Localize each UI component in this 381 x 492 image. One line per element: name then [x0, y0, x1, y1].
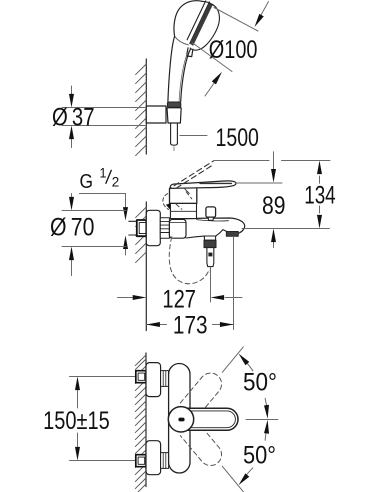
- lever capsule inner line: [188, 411, 235, 428]
- label 1500 leader line: [180, 135, 207, 137]
- shower head pivot tab: [187, 48, 193, 57]
- phantom handle sweep dashes: [184, 188, 190, 194]
- lever blade: [170, 181, 236, 188]
- upper union nut/nipple: [161, 371, 169, 387]
- wall hatching (bottom section): [135, 355, 146, 492]
- phantom lever up position (dashed): [180, 369, 226, 418]
- shower handle left edge: [168, 37, 175, 102]
- svg-text:134: 134: [304, 182, 336, 210]
- lever front circle: [168, 407, 193, 432]
- dimension Ø70 extension lines: [62, 210, 126, 212]
- lever rotation arrow: [163, 194, 169, 210]
- lower union square nut: [136, 455, 146, 467]
- svg-text:Ø 37: Ø 37: [52, 103, 95, 131]
- svg-text:1500: 1500: [216, 124, 259, 152]
- wall line (bottom section): [145, 353, 147, 487]
- dimension 150±15: [77, 391, 79, 409]
- dimension Ø37 arrows: [71, 86, 73, 95]
- hose connector tube: [207, 248, 214, 267]
- dimension 173: [146, 324, 166, 326]
- dimension 150±15 extension lines: [70, 376, 136, 378]
- shower hose (top section): [170, 123, 172, 144]
- svg-text:2: 2: [112, 174, 120, 189]
- shower head face plate double line: [187, 1, 206, 40]
- dimension 134: [319, 176, 321, 183]
- connector centerline tick: [209, 268, 211, 273]
- body underside left of connector: [186, 236, 204, 238]
- hose connector neck: [204, 236, 215, 240]
- spout outlet aerator: [226, 231, 238, 236]
- shower head outer rim: [190, 1, 219, 50]
- inlet fitting between flange and body: [160, 218, 169, 238]
- extension line lever top (89): [236, 182, 283, 184]
- extension line hose connector (127): [210, 267, 212, 302]
- shower head bottom closing edge: [175, 36, 189, 45]
- G 1/2 label: [80, 166, 120, 193]
- extension line raised lever top: [214, 160, 269, 162]
- upper union flange: [146, 363, 161, 397]
- lever capsule (front view): [184, 408, 238, 430]
- wall hatching (top section): [136, 64, 147, 156]
- wall bracket cone: [167, 108, 181, 123]
- mixer spout: [172, 218, 245, 234]
- dimension Ø100 lower arrow: [205, 83, 215, 97]
- svg-text:Ø100: Ø100: [209, 36, 258, 64]
- svg-text:89: 89: [262, 192, 286, 220]
- wall line (top section): [145, 59, 147, 154]
- wall line (mid section): [145, 202, 147, 331]
- svg-text:1: 1: [100, 166, 107, 181]
- cartridge neck: [170, 203, 196, 218]
- dimension Ø100 extension line A: [214, 8, 258, 32]
- phantom lever down position (dashed): [180, 421, 226, 470]
- arc arrow upper 50: [242, 358, 253, 371]
- shower handle right edge: [181, 49, 191, 102]
- svg-text:127: 127: [162, 285, 196, 313]
- angle line lower 50: [222, 466, 243, 491]
- wall flange (mid section): [146, 210, 160, 245]
- wall hatching (mid section): [136, 207, 147, 263]
- extension line outlet level: [242, 228, 330, 230]
- mixer body capsule (front view): [169, 364, 190, 474]
- diverter knob: [206, 207, 216, 217]
- phantom raised lever (dashed pair): [174, 161, 214, 186]
- G1/2 port square: [137, 220, 147, 236]
- supply pipe stub in wall: [129, 220, 137, 222]
- angle line upper 50: [222, 347, 243, 372]
- upper union square nut: [136, 371, 146, 383]
- handle end cap (knurled ring): [167, 102, 180, 107]
- spout inner top line: [197, 220, 229, 221]
- svg-text:50°: 50°: [243, 441, 276, 469]
- dimension 89: [273, 152, 275, 170]
- logo dot on circle: [178, 418, 184, 422]
- centerline right of lever: [246, 419, 278, 421]
- lower union nut/nipple: [161, 453, 169, 469]
- shower head outline (back): [174, 1, 202, 37]
- lower union flange: [146, 441, 161, 475]
- dimension Ø70 arrows: [71, 194, 73, 197]
- hose centerline tick: [173, 147, 175, 151]
- shower head spray band (stippled): [190, 2, 213, 46]
- G 1/2 dimension arrows: [125, 194, 127, 208]
- svg-text:173: 173: [173, 311, 208, 339]
- dimension 127: [118, 297, 133, 299]
- dimension Ø100 upper arrow: [261, 2, 269, 16]
- svg-text:50°: 50°: [243, 368, 277, 396]
- body internal joint line: [170, 222, 186, 224]
- arc arrow lower 50: [265, 426, 267, 440]
- svg-text:150±15: 150±15: [43, 407, 110, 435]
- G 1/2 shelf leader line: [80, 193, 126, 195]
- lever cap: [170, 187, 197, 204]
- phantom hose loop (dashed): [169, 237, 209, 284]
- dimension Ø37 extension lines: [62, 107, 145, 109]
- shower handle inner contour line: [179, 52, 188, 102]
- dimension Ø100 extension line B: [192, 43, 232, 72]
- extension line spout tip (173): [233, 237, 235, 330]
- valve body block: [169, 219, 186, 238]
- hose connector knurled nut: [204, 240, 216, 247]
- svg-text:Ø 70: Ø 70: [50, 213, 94, 241]
- spout underside right of connector: [216, 230, 227, 237]
- wall bracket plate: [146, 106, 166, 123]
- svg-text:G: G: [80, 170, 94, 193]
